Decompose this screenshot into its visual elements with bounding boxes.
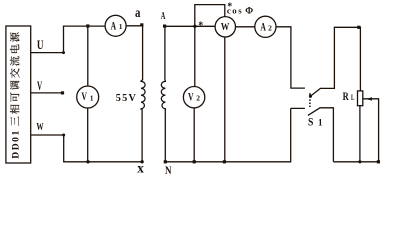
svg-text:L: L	[351, 93, 354, 102]
svg-text:N: N	[165, 165, 172, 177]
svg-text:A: A	[260, 19, 266, 33]
svg-text:S: S	[308, 115, 314, 129]
svg-text:W: W	[36, 121, 43, 133]
svg-text:A: A	[161, 11, 166, 22]
svg-text:1: 1	[90, 94, 94, 103]
svg-text:1: 1	[318, 118, 323, 128]
svg-text:a: a	[135, 6, 140, 21]
svg-text:x: x	[137, 162, 144, 177]
svg-text:2: 2	[268, 23, 272, 32]
svg-text:V: V	[37, 79, 42, 93]
svg-text:R: R	[343, 91, 350, 103]
svg-text:DD01: DD01	[11, 129, 22, 158]
svg-text:55V: 55V	[116, 93, 137, 104]
svg-text:A: A	[111, 19, 117, 33]
svg-text:W: W	[221, 22, 230, 33]
svg-text:V: V	[81, 89, 87, 103]
svg-text:*: *	[198, 20, 203, 31]
svg-text:Φ: Φ	[245, 7, 253, 17]
svg-text:V: V	[188, 89, 194, 103]
svg-text:1: 1	[119, 22, 123, 31]
svg-text:2: 2	[196, 94, 200, 103]
svg-text:*: *	[227, 1, 232, 12]
svg-text:U: U	[37, 37, 44, 52]
